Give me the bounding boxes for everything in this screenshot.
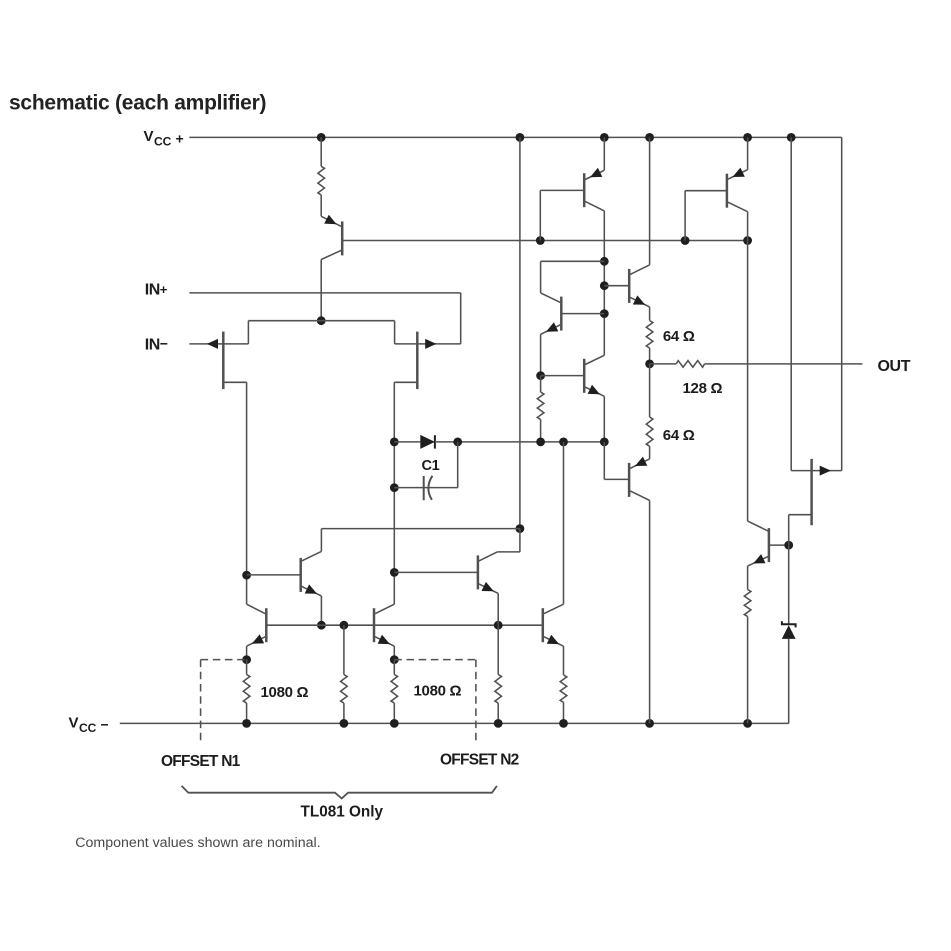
wire Q3 emitter from rail (603, 137, 605, 170)
transistor Q13 bar (JFET) (810, 459, 813, 525)
arrow Q4 emitter (NPN) (633, 295, 645, 304)
junction J1 drain / Q7 base (242, 571, 251, 580)
net label VCC+ (144, 128, 184, 149)
transistor Q12 bar (768, 528, 771, 562)
junction on VCC+ rail x791 (787, 133, 796, 142)
transistor Q8 bar (373, 608, 376, 642)
wire Q11 base line (394, 571, 478, 573)
wire Q13 gate lead (812, 470, 842, 472)
wire Q10 emitter diagonal (544, 637, 564, 647)
wire VCC+ rail right drop (841, 137, 843, 470)
wire Q1 base line (342, 240, 747, 242)
transistor Q11 bar (477, 555, 480, 589)
wire IN+ line (189, 292, 460, 294)
wire OUT right seg (705, 363, 863, 365)
junction x604 y286 (Q4 base) (600, 281, 609, 290)
wire Q12 base line (769, 544, 789, 546)
resistor R7 (744, 590, 751, 617)
wire Q7 collector diagonal (302, 551, 322, 561)
arrow Q14 emitter (PNP) (635, 457, 647, 466)
wire R3 top (393, 660, 395, 675)
wire tail rail (248, 320, 394, 322)
transistor Q14 bar (628, 463, 631, 497)
wire R-x563 bottom (563, 702, 565, 723)
arrow Q10 emitter (NPN) (547, 635, 559, 644)
wire Q2 base line (685, 190, 727, 192)
svg-text:OUT: OUT (878, 358, 911, 375)
junction tail node (317, 316, 326, 325)
wire J1 source up (247, 321, 249, 344)
wire Q9 emitter down (246, 646, 248, 659)
resistor R2 1080 (243, 675, 250, 704)
resistor R6 64 lower (646, 417, 653, 446)
wire C1 left (394, 487, 457, 489)
wire Q8 collector diagonal (375, 604, 394, 614)
junction diode line right end (600, 438, 609, 447)
arrow Q13 gate (JFET) (820, 466, 831, 476)
wire Q10 emitter down (563, 646, 565, 675)
wire Q1 collector diagonal (321, 250, 342, 260)
wire Q4 emitter down (649, 307, 651, 321)
svg-text:1080 Ω: 1080 Ω (261, 684, 309, 701)
junction base rail / Q11 emitter (494, 621, 503, 630)
wire Q3 emitter diagonal (585, 170, 604, 179)
wire C1 up to diode line (457, 442, 459, 488)
wire VCC- rail (120, 722, 789, 724)
wire R3 bottom (393, 703, 395, 723)
note text (75, 835, 320, 851)
resistor R-x540 (537, 392, 544, 419)
wire R1 bottom (320, 195, 322, 216)
arrow Q8 emitter (NPN) (378, 635, 390, 644)
wire Q13 drain up (790, 137, 792, 470)
label TL081 Only (301, 804, 384, 821)
wire Q5 collector diagonal (541, 293, 561, 303)
transistor Q1 bar (341, 221, 344, 255)
net label OUT (878, 358, 911, 375)
arrow Q12 emitter (NPN) (753, 554, 765, 563)
wire Q14 base line (604, 478, 629, 480)
diode D1 triangle (420, 435, 435, 449)
svg-text:Component values shown are nom: Component values shown are nominal. (75, 835, 320, 851)
junction on VCC+ rail x604 (600, 133, 609, 142)
transistor Q2 bar (726, 174, 729, 208)
label OFFSET N2 (440, 752, 519, 769)
net label IN+ (145, 282, 168, 299)
wire IN- / J1 gate line (189, 343, 248, 345)
svg-text:TL081 Only: TL081 Only (301, 804, 384, 821)
transistor J2 bar (input JFET) (416, 332, 419, 390)
junction x521 / mirror line (516, 524, 525, 533)
wire Q13 source down (788, 515, 790, 545)
wire R-x344 top (343, 625, 345, 674)
junction VCC- rail Q14 collector (645, 719, 654, 728)
transistor Q5 bar (560, 297, 563, 331)
dashed offset N2 vertical (475, 660, 477, 744)
wire VCC+ rail (189, 136, 841, 138)
wire R2 top (246, 660, 248, 675)
junction x604 y261 (600, 257, 609, 266)
junction VCC- rail R2 (242, 719, 251, 728)
wire Q9 collector diagonal (247, 604, 266, 614)
svg-text:schematic (each amplifier): schematic (each amplifier) (9, 92, 266, 115)
capacitor C1 left plate (423, 476, 425, 500)
wire Q5 base line (561, 313, 604, 315)
arrow Q5 emitter (NPN) (546, 322, 558, 331)
wire Q3 base line (540, 189, 584, 191)
junction on VCC+ rail x747 (743, 133, 752, 142)
wire R2 bottom (246, 703, 248, 723)
wire x521 below junction (519, 529, 521, 552)
label R6 64 ohm (663, 427, 695, 444)
wire diode line right seg (435, 441, 604, 443)
resistor R3 1080 (391, 675, 398, 704)
junction VCC- rail R-x563 (559, 719, 568, 728)
junction diode line left (390, 438, 399, 447)
resistor R-x498 (495, 675, 502, 704)
dashed offset N1 vertical (200, 660, 202, 744)
wire R-x498 bottom (497, 703, 499, 723)
arrow Q11 emitter (NPN) (482, 582, 494, 591)
label R4 64 ohm (663, 328, 695, 345)
diode D1 cathode bar (434, 435, 436, 448)
zener D2 triangle (782, 625, 796, 639)
junction base rail / R-x344 (340, 621, 349, 630)
wire Q7 emitter down (320, 596, 322, 625)
wire Q13 drain lead (791, 470, 811, 472)
junction VCC- rail R-x344 (340, 719, 349, 728)
svg-text:IN−: IN− (145, 336, 168, 354)
wire Q2 collector down (747, 212, 749, 521)
brace TL081 only (182, 786, 497, 799)
wire Q3 base down (539, 190, 541, 240)
wire J2 drain down (393, 382, 395, 604)
junction diode line / Q10 collector (559, 438, 568, 447)
wire mirror line y528 (321, 528, 520, 530)
label R2 1080 ohm (261, 684, 309, 701)
wire R-x540 top (540, 376, 542, 392)
wire Q10 collector up (563, 442, 565, 604)
wire y261 link (541, 260, 605, 262)
wire Q4 collector from rail (649, 137, 651, 265)
dashed offset N2 horizontal (394, 659, 476, 661)
junction Q9 emitter / offset N1 (242, 655, 251, 664)
wire Q6 emitter diagonal (585, 387, 604, 396)
transistor Q4 bar (628, 269, 631, 303)
wire Q1 emitter diagonal (321, 216, 342, 227)
wire Q5 collector down (540, 261, 542, 293)
junction Q5 emitter / Q6 base (536, 371, 545, 380)
wire Q6 emitter down (603, 396, 605, 442)
wire Q14 base up (603, 442, 605, 480)
wire J2 gate line (395, 343, 461, 345)
arrow Q9 emitter (NPN) (252, 634, 264, 643)
resistor R4 64 upper (646, 321, 653, 349)
label C1 (422, 458, 440, 474)
junction VCC- rail R3 (390, 719, 399, 728)
wire Q11 emitter diagonal (479, 584, 498, 594)
arrow Q1 emitter (PNP) (324, 215, 336, 225)
wire Q7 collector up (320, 529, 322, 552)
transistor Q10 bar (542, 608, 545, 642)
wire R4 bottom (649, 348, 651, 364)
wire Q12 collector diagonal (748, 521, 768, 531)
arrow Q7 emitter (NPN) (305, 584, 317, 593)
wire R-x344 bottom (343, 703, 345, 723)
dashed offset N1 horizontal (201, 659, 247, 661)
wire Q1 collector down (320, 260, 322, 321)
wire Q6 collector diagonal (585, 355, 604, 364)
wire IN+ drop to J2 gate (460, 293, 462, 344)
label R5 128 ohm (683, 380, 723, 397)
wire R-x498 top (497, 625, 499, 674)
wire J2 source up (394, 321, 396, 344)
wire Q11 emitter down (497, 593, 499, 625)
zener D2 cathode bar (782, 621, 796, 627)
wire Q14 emitter diagonal (630, 459, 650, 469)
wire Q4 base line (604, 285, 629, 287)
svg-text:64 Ω: 64 Ω (663, 427, 695, 444)
wire Q4 collector diagonal (630, 265, 649, 275)
wire Q11 collector diagonal (479, 552, 497, 561)
title text (9, 92, 266, 115)
resistor R-x344 (341, 675, 348, 704)
wire Q2 emitter diagonal (728, 170, 748, 180)
transistor Q9 bar (265, 608, 268, 642)
label R3 1080 ohm (414, 683, 462, 700)
wire Q9 emitter diagonal (247, 637, 266, 647)
junction VCC- rail R-x498 (494, 719, 503, 728)
junction diode line / R-x540 (536, 438, 545, 447)
wire zener top (788, 545, 790, 624)
svg-text:C1: C1 (422, 458, 440, 474)
wire R-x540 bottom (540, 419, 542, 442)
junction Q1 base / Q3 base (536, 236, 545, 245)
arrow J1 gate (p-JFET) (207, 339, 218, 349)
wire Q5 emitter diagonal (541, 325, 561, 335)
wire VCC+ to second stage x521 (519, 137, 521, 528)
net label VCC- (69, 715, 109, 736)
wire Q2 emitter from rail (747, 137, 749, 169)
wire diode line left seg (394, 441, 420, 443)
wire R7 bottom (747, 617, 749, 724)
resistor R1 (318, 166, 325, 195)
junction on VCC+ rail x521 (516, 133, 525, 142)
junction Q12 base / Q13 source (784, 541, 793, 550)
arrow Q2 emitter (PNP) (733, 168, 745, 177)
wire Q3 collector down (603, 211, 605, 355)
wire R6 bottom (649, 446, 651, 459)
junction Q1 base / Q2 base (681, 236, 690, 245)
net label IN- (145, 336, 168, 354)
wire J2 drain lead (394, 381, 417, 383)
resistor R5 128 (676, 361, 704, 368)
wire Q13 source lead (789, 514, 812, 516)
svg-text:OFFSET N2: OFFSET N2 (440, 752, 519, 769)
wire J1 drain down (246, 382, 248, 604)
resistor R-x563 (560, 675, 567, 702)
junction on VCC+ rail at R1 (317, 133, 326, 142)
wire below OUT (649, 364, 651, 417)
junction on VCC+ rail x650 (645, 133, 654, 142)
wire Q10 collector diagonal (544, 604, 564, 614)
junction diode cathode node (453, 438, 462, 447)
junction Q11 base / Q8 collector (390, 568, 399, 577)
wire Q9/Q8/Q10 base rail (266, 624, 543, 626)
wire Q6 base line (541, 375, 585, 377)
wire Q2 base down (684, 191, 686, 241)
wire Q4 emitter diagonal (630, 297, 649, 307)
wire Q14 collector diagonal (630, 491, 650, 501)
wire Q8 emitter diagonal (375, 637, 394, 647)
wire Q7 base line (247, 574, 301, 576)
junction x604 y313 (Q5 base) (600, 309, 609, 318)
capacitor C1 right plate (428, 476, 432, 500)
transistor Q7 bar (299, 558, 302, 592)
wire Q8 emitter down (393, 646, 395, 659)
arrow Q6 emitter (NPN) (588, 385, 600, 394)
transistor Q3 bar (583, 173, 586, 207)
wire Q7 emitter diagonal (302, 586, 322, 596)
transistor Q6 bar (583, 359, 586, 393)
wire OUT left seg (650, 363, 677, 365)
wire Q12 emitter diagonal (748, 557, 768, 567)
wire Q14 collector down (649, 500, 651, 723)
arrow J2 gate (p-JFET) (425, 339, 436, 349)
wire zener bottom (788, 639, 790, 724)
transistor J1 bar (input JFET) (222, 332, 225, 390)
wire Q5 emitter down (540, 334, 542, 375)
junction C1 left (390, 483, 399, 492)
junction Q8 emitter / offset N2 (390, 655, 399, 664)
svg-text:IN+: IN+ (145, 282, 168, 299)
wire Q3 collector diagonal (585, 201, 604, 211)
svg-text:OFFSET N1: OFFSET N1 (161, 753, 241, 770)
junction OUT node (645, 360, 654, 369)
svg-text:128 Ω: 128 Ω (683, 380, 723, 397)
arrow Q3 emitter (PNP) (590, 168, 602, 177)
svg-text:64 Ω: 64 Ω (663, 328, 695, 345)
junction Q7 emitter / base rail (317, 621, 326, 630)
wire Q12 emitter down (747, 566, 749, 589)
junction Q1 base / Q2 collector (743, 236, 752, 245)
wire Q2 collector diagonal (728, 202, 748, 212)
wire R1 top (320, 137, 322, 166)
wire Q11 collector horizontal (497, 551, 520, 553)
junction VCC- rail Q12 resistor (743, 719, 752, 728)
label OFFSET N1 (161, 753, 241, 770)
svg-text:1080 Ω: 1080 Ω (414, 683, 462, 700)
wire J1 drain lead (223, 381, 246, 383)
